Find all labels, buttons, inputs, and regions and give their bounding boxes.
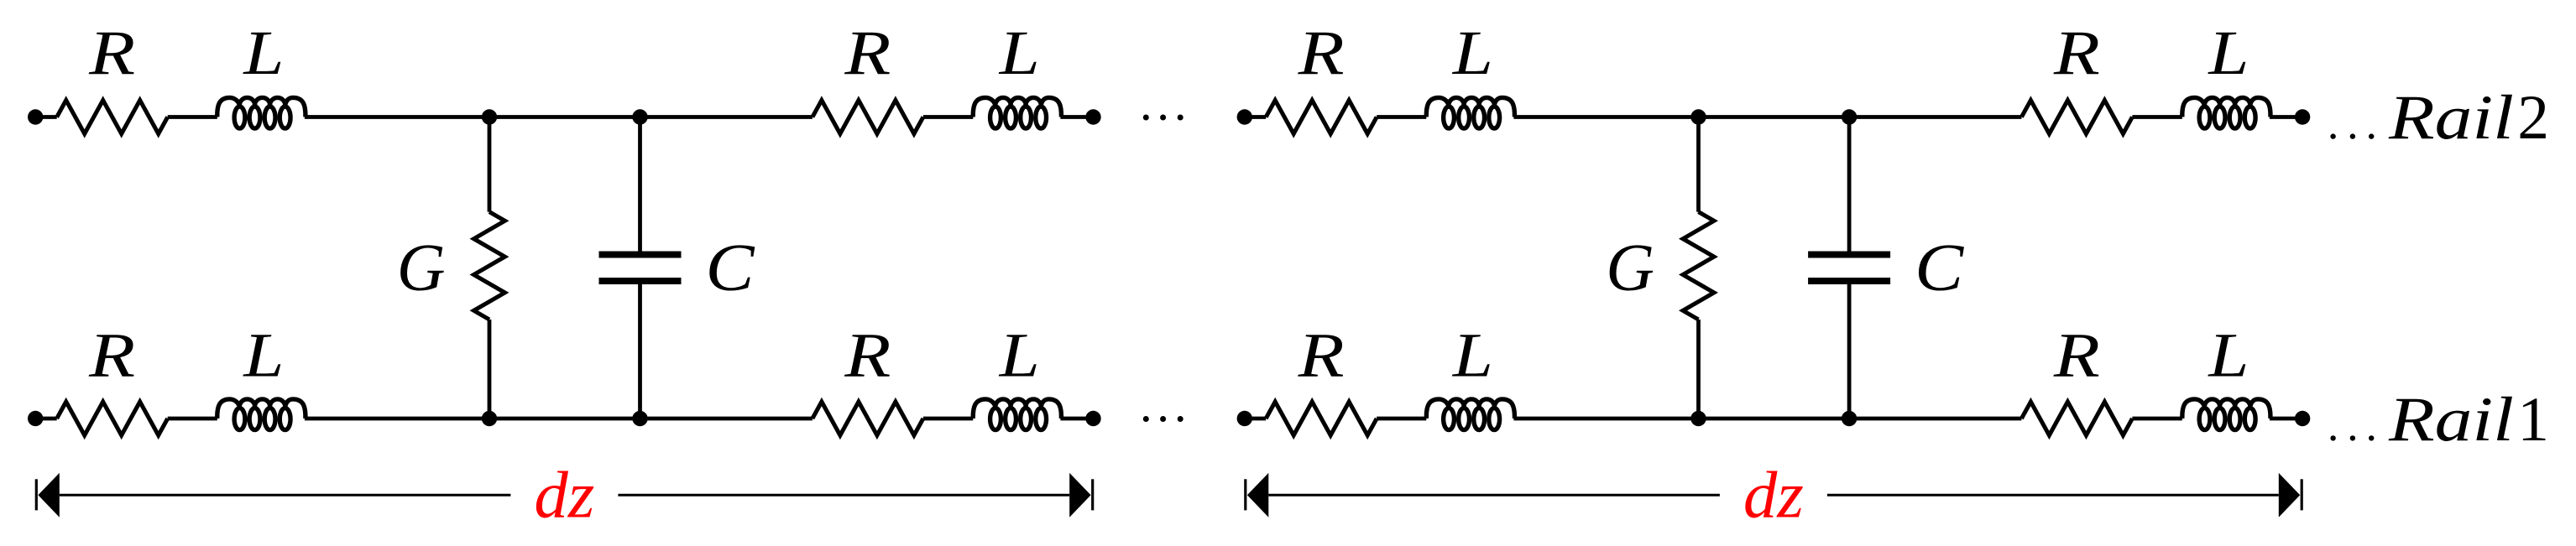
svg-text:L: L: [999, 18, 1040, 88]
svg-text:L: L: [1452, 321, 1493, 391]
svg-text:G: G: [397, 231, 446, 305]
svg-text:L: L: [2208, 321, 2249, 391]
svg-text:1: 1: [2517, 385, 2549, 455]
svg-text:L: L: [243, 321, 284, 391]
svg-text:2: 2: [2517, 83, 2549, 153]
svg-text:L: L: [999, 321, 1040, 391]
svg-text:L: L: [2208, 18, 2249, 88]
svg-text:R: R: [2053, 18, 2100, 88]
svg-text:L: L: [1452, 18, 1493, 88]
svg-text:G: G: [1606, 231, 1654, 305]
svg-text:Rail: Rail: [2388, 385, 2514, 455]
svg-text:R: R: [2053, 321, 2100, 391]
svg-text:R: R: [844, 18, 891, 88]
svg-text:C: C: [1915, 231, 1965, 305]
svg-text:R: R: [1298, 321, 1345, 391]
svg-text:R: R: [844, 321, 891, 391]
svg-text:Rail: Rail: [2388, 83, 2514, 153]
svg-text:R: R: [1298, 18, 1345, 88]
svg-text:R: R: [88, 18, 135, 88]
svg-text:L: L: [243, 18, 284, 88]
svg-text:R: R: [88, 321, 135, 391]
svg-text:dz: dz: [534, 460, 594, 533]
svg-text:dz: dz: [1743, 460, 1804, 533]
svg-text:C: C: [706, 231, 756, 305]
